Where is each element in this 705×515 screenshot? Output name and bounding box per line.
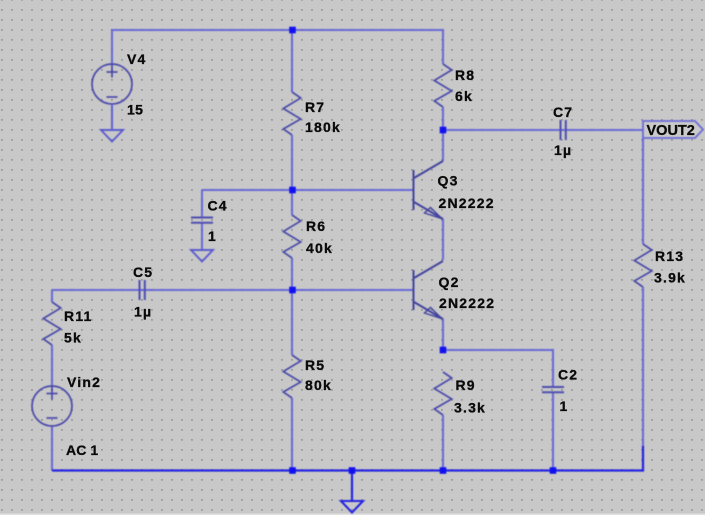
wire R5 top stub: [291, 290, 293, 355]
capacitor C4: [191, 218, 213, 223]
junction R8 collector C7: [440, 127, 447, 134]
voltage source Vin2: [32, 386, 72, 426]
resistor R8: [434, 64, 451, 107]
svg-text:Q2: Q2: [439, 274, 460, 290]
wire R5 bottom to rail: [291, 398, 293, 470]
junction rail C2: [550, 467, 557, 474]
junction rail R5: [289, 467, 296, 474]
wire R11 top corner: [51, 290, 53, 302]
resistor R13: [634, 244, 651, 287]
svg-text:R11: R11: [64, 308, 93, 324]
junction rail R9: [440, 467, 447, 474]
svg-text:AC 1: AC 1: [66, 442, 98, 458]
wire V4 to ground: [111, 104, 113, 130]
svg-text:R13: R13: [655, 248, 684, 264]
wire Q2 emitter to R9 junction: [442, 319, 444, 350]
wire C4 corner down: [201, 190, 203, 217]
wire R9 bottom to rail: [442, 415, 444, 470]
resistor R11: [43, 302, 60, 345]
wire Q3 emitter to Q2 collector: [442, 219, 444, 260]
svg-text:6k: 6k: [455, 88, 473, 104]
wire Q3 collector stub: [442, 130, 444, 161]
svg-text:C4: C4: [208, 198, 228, 214]
voltage source V4: [92, 64, 132, 104]
capacitor C7: [561, 120, 566, 140]
svg-text:2N2222: 2N2222: [439, 295, 495, 311]
resistor R7: [283, 92, 300, 135]
wire C2 bottom to rail: [552, 393, 554, 470]
wire Vin2 to bottom rail: [51, 426, 53, 470]
junction Q2 emitter R9: [440, 347, 447, 354]
svg-text:3.9k: 3.9k: [654, 270, 686, 286]
svg-text:Vin2: Vin2: [67, 374, 101, 390]
capacitor C5: [140, 280, 145, 300]
junction top rail R7: [289, 27, 296, 34]
wire R7 to base junction: [291, 135, 293, 190]
junction rail ground: [349, 467, 356, 474]
svg-text:R8: R8: [455, 67, 475, 83]
junction Q2 base: [289, 287, 296, 294]
svg-text:C5: C5: [133, 264, 153, 280]
wire top rail from V4 to R8: [112, 30, 443, 64]
wire R9 junction to C2: [443, 350, 553, 387]
transistor Q2: [414, 261, 444, 319]
svg-text:R7: R7: [305, 99, 325, 115]
wire R6 top stub: [291, 190, 293, 215]
svg-text:R6: R6: [306, 218, 326, 234]
transistor Q3: [414, 161, 444, 219]
svg-text:15: 15: [127, 102, 143, 118]
wire R11 to Vin2: [51, 345, 53, 386]
svg-text:R5: R5: [305, 357, 325, 373]
ground symbol bottom: [341, 501, 363, 513]
junction Q3 base: [289, 187, 296, 194]
svg-text:1: 1: [560, 398, 569, 414]
svg-text:C2: C2: [558, 367, 578, 383]
svg-text:80k: 80k: [305, 377, 332, 393]
svg-text:180k: 180k: [305, 119, 341, 135]
svg-text:1µ: 1µ: [554, 142, 572, 158]
bottom ground rail: [52, 446, 643, 471]
resistor R9: [434, 372, 451, 415]
resistor R5: [283, 355, 300, 398]
wire C7 net from junction to VOUT2 flag: [443, 129, 643, 131]
svg-text:C7: C7: [553, 104, 573, 120]
svg-text:5k: 5k: [64, 330, 82, 346]
wire ground stem: [351, 470, 353, 501]
svg-text:1µ: 1µ: [134, 304, 152, 320]
capacitor C2: [542, 387, 564, 392]
wire C5 input net to Q2 base: [52, 289, 413, 291]
svg-text:VOUT2: VOUT2: [647, 123, 695, 139]
svg-text:3.3k: 3.3k: [454, 400, 486, 416]
svg-text:40k: 40k: [306, 240, 333, 256]
wire VOUT2 flag down to R13: [642, 138, 644, 244]
svg-text:Q3: Q3: [438, 173, 459, 189]
wire R13 bottom to rail corner: [642, 287, 644, 470]
ground symbol below C4: [191, 250, 213, 262]
svg-text:1: 1: [208, 228, 217, 244]
svg-text:2N2222: 2N2222: [439, 195, 495, 211]
svg-text:V4: V4: [127, 51, 147, 67]
node VOUT2 flag outline: [643, 121, 703, 138]
wire R6 bottom to C5 net: [291, 258, 293, 290]
wire C4 bottom to ground: [201, 223, 203, 250]
wire R8 bottom to collector junction: [442, 107, 444, 130]
wire C4 to Q3 base: [202, 189, 413, 191]
svg-text:R9: R9: [456, 377, 476, 393]
ground symbol below V4: [101, 130, 123, 142]
resistor R6: [283, 215, 300, 258]
wire R7 top stub: [291, 30, 293, 92]
